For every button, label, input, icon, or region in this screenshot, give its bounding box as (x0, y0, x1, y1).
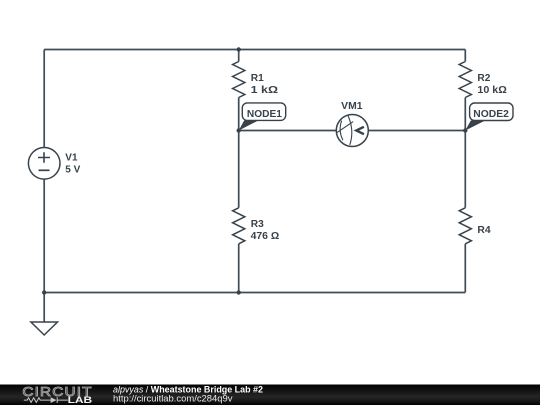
svg-text:5 V: 5 V (65, 165, 80, 176)
footer bar (0, 385, 540, 405)
R2 label (477, 73, 506, 96)
wire middle horizontal left of VM1 (239, 130, 337, 132)
svg-text:R3: R3 (251, 219, 264, 230)
node NODE2 (465, 103, 513, 131)
wire middle branch top lead (238, 50, 240, 62)
svg-text:1 kΩ: 1 kΩ (251, 85, 278, 96)
svg-text:V1: V1 (65, 152, 78, 163)
wire left vertical upper (top wire to V1) (43, 50, 45, 148)
wire right branch NODE2 to R4 (464, 131, 466, 208)
R1 label (251, 73, 278, 96)
svg-text:LAB: LAB (68, 395, 93, 405)
svg-text:VM1: VM1 (341, 101, 363, 112)
ground (31, 322, 58, 335)
resistor R4 (459, 208, 471, 244)
voltmeter VM1 (336, 115, 368, 147)
junction dot ground (42, 290, 46, 294)
wire bottom horizontal (44, 292, 465, 294)
logo diode triangle (51, 397, 57, 403)
svg-text:10 kΩ: 10 kΩ (477, 85, 506, 96)
R4 label (477, 225, 491, 236)
wire right branch top lead (464, 50, 466, 62)
resistor R1 (233, 62, 245, 98)
wire top horizontal (44, 49, 465, 51)
voltage source V1 (28, 148, 60, 180)
svg-text:NODE1: NODE1 (247, 109, 282, 120)
wire right branch between R2 and NODE2 (464, 98, 466, 131)
wire left vertical lower (V1 to bottom wire) (43, 179, 45, 293)
junction dot NODE2 (463, 128, 467, 132)
VM1 label (341, 101, 363, 112)
resistor R3 (233, 208, 245, 244)
junction dot NODE1 (237, 128, 241, 132)
svg-text:R2: R2 (477, 73, 490, 84)
wire middle horizontal right of VM1 (368, 130, 465, 132)
wire middle branch R3 to bottom (238, 244, 240, 293)
wire middle branch NODE1 to R3 (238, 131, 240, 208)
svg-text:R1: R1 (251, 73, 264, 84)
V1 label (65, 152, 80, 175)
svg-text:http://circuitlab.com/c284q9v: http://circuitlab.com/c284q9v (113, 393, 233, 403)
logo mini circuit: wire resistor diode (24, 397, 68, 403)
wire right branch R4 to bottom (464, 244, 466, 293)
wire middle branch between R1 and NODE1 (238, 98, 240, 131)
R3 label (251, 219, 280, 242)
svg-text:476 Ω: 476 Ω (251, 231, 280, 242)
junction dot bottom middle (237, 290, 241, 294)
svg-text:NODE2: NODE2 (473, 109, 509, 120)
resistor R2 (459, 62, 471, 98)
node NODE1 (239, 103, 286, 131)
junction dot top middle (237, 47, 241, 51)
wire ground stem (43, 293, 45, 323)
svg-text:R4: R4 (477, 225, 491, 236)
